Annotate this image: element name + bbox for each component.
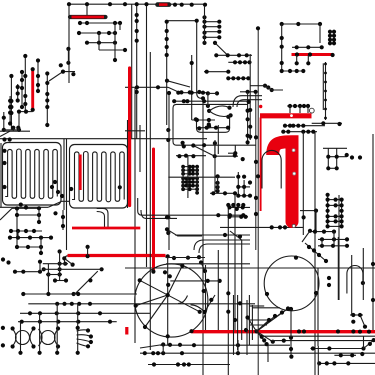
wire long y303 xyxy=(28,303,255,305)
junction row y193 xyxy=(211,191,237,195)
wire vertical x351 xyxy=(351,255,353,315)
wire row y271 xyxy=(15,271,40,273)
node red bottom xyxy=(31,108,35,112)
wire diag below ladder xyxy=(302,231,310,242)
junction row y100 xyxy=(172,99,251,104)
wire vertical x69 xyxy=(68,4,70,83)
wire bottom link xyxy=(4,129,19,131)
wire lead b xyxy=(299,106,301,113)
wire row y91 right xyxy=(240,91,256,93)
chord Q1 a xyxy=(140,280,200,312)
wire ladder2 rung 1 xyxy=(328,204,342,206)
junction row y42 xyxy=(85,41,117,45)
wire vertical x235 xyxy=(234,193,236,330)
wire vertical x191 xyxy=(191,55,193,120)
junction row y231b xyxy=(308,229,336,234)
node red dot above xyxy=(259,105,262,108)
wire row y23 xyxy=(80,22,120,24)
junction trio x217 xyxy=(216,174,220,193)
junction row y227 mid xyxy=(270,225,288,229)
red net horizontal A xyxy=(72,227,140,230)
wire diagonal x193-215 xyxy=(193,146,214,157)
wire ladder2 rail r xyxy=(341,200,343,227)
junction row y231 xyxy=(9,229,36,233)
wire vertical col g xyxy=(9,96,11,124)
junction lattice right mid xyxy=(351,313,371,334)
motor M2 body xyxy=(41,331,55,345)
junction hook bus row2 xyxy=(281,130,315,134)
wire vertical x19 xyxy=(18,112,20,130)
wire row y155 xyxy=(176,155,206,157)
wire row y348 xyxy=(310,348,363,350)
wire vertical x115 xyxy=(114,23,116,60)
junction small cluster xyxy=(263,84,274,93)
wire vertical x214 xyxy=(214,143,216,156)
wire row y281 xyxy=(53,280,68,282)
wire diag corner left xyxy=(0,131,10,136)
junction row y208 xyxy=(15,205,41,210)
wire lattice v1 xyxy=(327,148,329,168)
wire DIP row y166 xyxy=(183,166,197,168)
wire row y345 xyxy=(160,344,290,346)
wire DIP left rail xyxy=(182,167,184,190)
wire vertical x330 xyxy=(329,30,331,44)
wire vertical col a xyxy=(24,56,26,112)
junction col f xyxy=(45,71,49,127)
junction diag NE xyxy=(307,245,328,263)
wire diagonal below coils xyxy=(48,201,69,207)
wire stem s4 xyxy=(77,304,79,353)
wire row y235 xyxy=(175,234,250,236)
wire vertical x323 xyxy=(322,63,324,110)
red net thin drop xyxy=(260,118,262,212)
junction above Q1 xyxy=(172,255,201,260)
wire grid v3 xyxy=(87,247,89,256)
wire vertical x322 xyxy=(321,239,323,245)
junction y87 row xyxy=(135,85,205,95)
wire row y71 xyxy=(204,71,228,73)
red net long vertical 2 xyxy=(152,149,155,270)
wire row y237 xyxy=(9,237,52,239)
wire stem s1 xyxy=(20,322,22,353)
wire bg horizontal y177 xyxy=(168,176,235,178)
wire vertical x166 xyxy=(166,21,168,125)
wire row y71r xyxy=(282,70,304,72)
wire row y210 hook xyxy=(300,210,316,212)
wire hook bus row1 xyxy=(283,125,325,127)
wire cluster link b xyxy=(265,86,283,90)
wire lattice right mid a xyxy=(350,314,363,316)
junction row y348 xyxy=(311,346,366,350)
junction row y33 xyxy=(77,31,117,35)
junction Q2 stem xyxy=(289,336,294,359)
junction col g xyxy=(8,99,12,126)
junction row y364 xyxy=(152,362,191,366)
wire chip bend inner xyxy=(199,244,250,253)
wire vertical x233 xyxy=(233,295,235,355)
fan ray 3 xyxy=(257,313,283,332)
wire drop1 xyxy=(296,55,298,63)
wire vertical x215 xyxy=(214,140,216,192)
wire vertical x320 xyxy=(319,24,321,43)
wire link y111 xyxy=(19,111,33,113)
junction row y235 xyxy=(223,233,242,239)
wire horizontal y138 over coils xyxy=(0,138,207,140)
wire row y364 xyxy=(148,364,230,366)
wire vertical x363 xyxy=(362,248,364,300)
wire diagonal NE of Q2 xyxy=(305,243,326,261)
wire vertical x218 xyxy=(217,125,219,154)
wire long y340 xyxy=(270,340,375,342)
wire diag from x166 xyxy=(167,81,190,87)
junction row y245 xyxy=(320,244,349,248)
wire lattice top h xyxy=(323,147,347,149)
chord Q1 c xyxy=(145,295,168,327)
wire row y208 xyxy=(12,207,39,209)
junction col c xyxy=(9,74,13,115)
node bottom link xyxy=(17,128,21,132)
wire ladder rung 0 xyxy=(205,21,220,23)
junction pipe lower xyxy=(181,141,207,149)
wire DIP row y185 xyxy=(183,185,197,187)
red net stub left edge xyxy=(125,327,128,335)
junction ladder2 xyxy=(326,193,344,229)
junction col d xyxy=(16,85,20,103)
wire above red bar xyxy=(292,46,322,48)
wire row y78 xyxy=(227,77,250,79)
node red bar start xyxy=(189,329,193,333)
wire pipe below box2 a xyxy=(97,209,108,229)
junction below red bar xyxy=(295,61,311,65)
wire vertical x217 xyxy=(217,176,219,191)
junction hook bus row1 xyxy=(283,124,306,128)
wire vertical x150 long xyxy=(149,52,151,350)
junction right corner xyxy=(282,338,375,346)
wire vertical x318 bottom xyxy=(317,346,319,375)
junction row y345 xyxy=(161,342,240,347)
wire grid h3 xyxy=(46,274,62,276)
wire vertical x68 xyxy=(67,49,69,63)
wire DIP row y178 xyxy=(183,177,197,179)
wire row y50 xyxy=(99,49,125,51)
resistor coil box L1 outline xyxy=(3,143,62,206)
junction row y355 xyxy=(339,352,365,358)
wire row y100 xyxy=(174,100,250,102)
wire between boxes v2 xyxy=(66,139,68,250)
wire lattice mid h2 xyxy=(238,195,250,197)
fan ray down1 xyxy=(257,331,262,336)
wire row y215 xyxy=(17,214,39,216)
junction row y78 xyxy=(226,76,250,80)
node x258 top xyxy=(256,26,260,30)
wire vertical x334 xyxy=(333,30,335,44)
wire diagonal corner xyxy=(0,208,12,220)
wire vertical x163 xyxy=(162,345,164,354)
wire DIP row y173 xyxy=(183,173,197,175)
wire lead c xyxy=(307,106,309,113)
arch right bottom xyxy=(347,266,363,294)
junction stems xyxy=(18,326,79,355)
wire U-detour pipe xyxy=(173,104,256,145)
node y50 end xyxy=(123,48,127,52)
junction col x281 xyxy=(280,36,284,65)
junction arc nodes xyxy=(202,298,213,314)
wire above power bar xyxy=(287,105,310,107)
wire vertical x205 xyxy=(205,265,207,330)
wire vertical x196 with bend xyxy=(197,21,203,99)
fan ray up-left xyxy=(248,318,257,332)
wire vertical x250b xyxy=(249,54,251,140)
wire diagonal to right cluster xyxy=(49,72,75,81)
red net hook xyxy=(273,142,292,222)
fan ray down3 xyxy=(257,331,273,341)
wire pipe y218 xyxy=(141,210,177,218)
junction grid small xyxy=(42,245,104,277)
wire drop2 xyxy=(307,55,309,63)
wire vertical x237 xyxy=(237,295,239,350)
wire chip corner inner xyxy=(237,100,262,107)
wire vertical col f xyxy=(46,74,48,126)
wire row y207 xyxy=(228,206,250,208)
wire pipe below box2 b xyxy=(97,212,105,229)
junction row y120 xyxy=(195,118,211,122)
wire diagonal x241 xyxy=(230,231,242,240)
junction right of Q1 xyxy=(226,291,248,332)
wire DIP row y170 xyxy=(183,169,197,171)
wire row y294 xyxy=(23,293,137,295)
wire vertical col b xyxy=(21,72,23,107)
junction x63 xyxy=(61,215,65,228)
node x39 xyxy=(37,220,41,224)
wire vertical col h xyxy=(3,112,5,130)
wire vertical x235c xyxy=(234,145,236,153)
wire diag right corner xyxy=(364,340,374,348)
wire row y55 xyxy=(216,54,252,56)
junction row y239 xyxy=(320,237,349,241)
wire chip bend outer xyxy=(194,240,250,250)
junction coil edges xyxy=(2,137,122,215)
wire vertical x41 xyxy=(40,238,42,253)
wire long diagonal xyxy=(74,271,98,295)
wire long y321 xyxy=(18,321,117,323)
wire right H y307 xyxy=(252,307,280,309)
wire loop U shape xyxy=(197,117,230,133)
wire row y353 xyxy=(140,352,375,354)
wire diag right mid xyxy=(360,315,365,327)
wire arc to node xyxy=(191,305,205,312)
fan arc 4 xyxy=(77,343,89,346)
node fan origin xyxy=(254,329,258,333)
wire row y87 xyxy=(125,86,168,88)
wire small arc inner xyxy=(178,296,188,304)
junction row y294 xyxy=(21,292,80,296)
wire row y127 xyxy=(196,127,230,129)
wire vertical x247 xyxy=(247,92,249,143)
wire vesica arc upper xyxy=(209,106,229,111)
brush arc M2 left xyxy=(39,329,43,346)
wire DIP right rail xyxy=(196,167,198,193)
junction row y155 xyxy=(177,154,195,159)
wire lattice mid v2 xyxy=(243,180,245,196)
junction col x168 xyxy=(166,128,170,235)
fan ray 4 xyxy=(257,309,289,332)
wire horizontal y20 xyxy=(167,20,197,22)
wire vesica top link xyxy=(208,92,217,94)
node big x203 xyxy=(201,96,205,100)
wire lead a xyxy=(289,106,291,113)
wire stub b xyxy=(17,128,19,132)
red net horizontal B xyxy=(68,254,166,257)
wire row y42 xyxy=(87,42,115,44)
junction row y62 xyxy=(233,60,252,64)
junction row y363 xyxy=(317,361,350,365)
junction row y215c xyxy=(216,213,245,217)
red net power bar xyxy=(260,113,312,118)
junction row y127 xyxy=(197,126,230,131)
junction row y123 xyxy=(321,121,341,126)
wire vesica stem xyxy=(207,93,209,108)
wire diagonal grid xyxy=(65,259,72,265)
junction row y216 xyxy=(227,215,247,219)
wire chip corner outer xyxy=(233,96,262,107)
node x196 y20 xyxy=(195,19,199,23)
fuse F1 casing xyxy=(70,15,106,19)
resistor coil box L2 outline xyxy=(70,145,128,209)
wire vertical x268 xyxy=(267,345,269,362)
node red top xyxy=(31,67,35,71)
wire diagonal ladder xyxy=(215,43,228,55)
fan ray 2 xyxy=(257,316,276,331)
wire horizontal y263 xyxy=(166,263,250,265)
wire vertical x256 long xyxy=(255,92,257,250)
wire vertical col e xyxy=(37,61,39,92)
via hole hook 3 xyxy=(292,224,295,227)
junction y127 stubs xyxy=(11,126,20,130)
junction row top bus xyxy=(67,2,207,7)
wire DIP row y189 xyxy=(183,188,197,190)
wire vertical x136 col xyxy=(136,4,138,139)
transistor Q2 body xyxy=(264,256,319,311)
junction top-right bus xyxy=(280,22,323,26)
wire vertical x1 left edge xyxy=(0,143,2,207)
via ring at bar end xyxy=(309,108,314,113)
wire vertical x363b xyxy=(363,336,365,348)
wire ladder2 rung 4 xyxy=(328,225,342,227)
wire grid v2 xyxy=(47,264,49,292)
wire grid h2 xyxy=(43,268,102,270)
junction col x166 xyxy=(165,20,170,83)
junction col a xyxy=(23,54,27,106)
junction link y111 xyxy=(17,110,28,114)
wire row y231 xyxy=(9,230,42,232)
red hook round cap xyxy=(286,215,299,228)
wire cluster link a xyxy=(250,85,265,87)
wire lattice rung2 xyxy=(328,167,336,169)
wire right H y306 xyxy=(249,305,264,307)
wire row y245 xyxy=(318,245,348,247)
wire stem s2 xyxy=(39,313,41,353)
wire bg vertical x187 xyxy=(187,156,189,199)
junction lattice mid xyxy=(233,151,252,198)
wire lattice rung1 xyxy=(328,156,346,158)
wire diag bottom left xyxy=(140,345,163,349)
wire row y123 xyxy=(312,122,342,124)
wire DIP row y182 xyxy=(183,181,197,183)
wire vertical x373 right edge xyxy=(372,134,374,250)
junction x250 col xyxy=(248,108,252,139)
junction row y71r xyxy=(280,69,306,73)
junction right col xyxy=(327,276,331,287)
wire grid v1 xyxy=(59,252,61,282)
wire vertical col d xyxy=(17,84,19,101)
wire diagonal y87-92 xyxy=(168,87,207,92)
resistor coil L1 meander xyxy=(5,149,57,199)
wire vertical x258 long xyxy=(257,28,259,375)
node x136 y92 xyxy=(135,90,139,94)
wire row y156 ext xyxy=(215,155,238,157)
wire ladder2 rung 2 xyxy=(328,215,342,217)
wire top bus xyxy=(69,3,207,5)
wire vertical x120 xyxy=(119,23,121,30)
wire horizontal y268 through Q2 xyxy=(125,267,375,269)
junction col b xyxy=(20,70,24,109)
junction lattice xyxy=(326,153,362,171)
wire stem s3 xyxy=(56,304,58,353)
wire stub a xyxy=(12,128,14,132)
red net coil strand xyxy=(79,155,82,191)
wire short y131 xyxy=(0,130,30,132)
wire vertical x373 bottom xyxy=(372,250,374,330)
junction x40 xyxy=(38,260,42,264)
junction col e xyxy=(36,58,40,93)
wire lattice v2 xyxy=(336,148,338,168)
wire vesica arc lower xyxy=(209,111,231,117)
wire vertical x252 xyxy=(251,305,253,340)
wire ladder rung 1 xyxy=(205,26,220,28)
junction above red bar xyxy=(295,45,324,49)
wire vertical x203 long xyxy=(202,98,204,375)
wire pipe corner at B start xyxy=(65,256,69,262)
via hole hook 2 xyxy=(293,172,296,175)
wire ladder rung 3 xyxy=(205,36,220,38)
red net bar NE xyxy=(292,53,333,56)
wire row y281 right xyxy=(170,280,221,282)
junction col x247 xyxy=(246,109,250,145)
wire vertical x17 xyxy=(16,209,18,248)
node x191 y63 xyxy=(190,61,194,65)
junction row y23 xyxy=(78,21,122,25)
wire row y239 xyxy=(318,238,348,240)
wire vertical x40 xyxy=(39,260,41,272)
wire between boxes v1 xyxy=(63,139,65,210)
fan arc 2 xyxy=(77,335,91,337)
junction dotted col x325 xyxy=(324,63,327,120)
wire vertical x218b xyxy=(217,250,219,330)
wire grid h1 xyxy=(43,263,68,265)
chord Q1 d xyxy=(168,266,183,295)
brush arc M2 right xyxy=(55,329,59,346)
junction y91 xyxy=(246,90,258,94)
red net bottom long xyxy=(192,330,375,333)
wire vertical x63 xyxy=(62,210,64,230)
junction row y92 extra xyxy=(179,90,201,95)
capacitor arch black xyxy=(262,150,281,188)
wire row y355 xyxy=(334,354,356,356)
node x41 xyxy=(39,251,43,255)
wire short y130 xyxy=(125,130,145,132)
junction row y55 xyxy=(214,53,249,57)
fuse F2 casing xyxy=(158,2,170,7)
